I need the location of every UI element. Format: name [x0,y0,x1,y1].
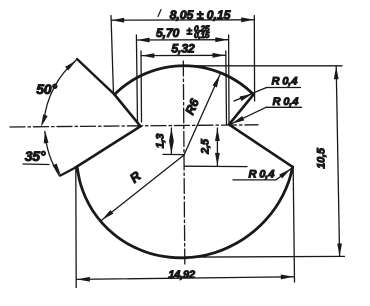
dim 14.92 line [77,277,294,280]
dim 10.5 bottom extension line (tangent at bottom of R arc) [177,255,345,258]
dim 8.05 right arrow [241,17,254,22]
dim 2.5 bottom arrow [215,153,220,166]
dim 2.5 line [216,128,218,166]
dim 5.32 left extension line [140,51,143,122]
svg-text:1,3: 1,3 [155,134,167,149]
svg-text:5,32: 5,32 [171,42,194,56]
fillet R0.4 top shoulder [267,87,301,89]
dim 5.32 right arrow [213,53,226,58]
radius leader R6 [184,75,220,156]
left notch upper edge 50deg [115,95,141,127]
angle 35 lower arrow [52,163,63,177]
svg-text:10,5: 10,5 [316,147,328,169]
angle arc 50deg [44,60,76,121]
angle 50 lower arrow [39,114,48,128]
left notch lower edge extension [61,168,76,176]
dim 5.70 left extension line [136,35,137,122]
center tick right (2.5 reference) [185,165,248,167]
fillet R0.4 bottom arrow [279,167,292,179]
vertical centerline [183,61,185,265]
stray tick before 8.05 [158,10,161,17]
angle 35 underline [23,163,49,166]
dim 5.32 left arrow [141,53,154,58]
angle arc 35deg [45,132,60,177]
dim 1.3 bottom arrow [169,141,174,154]
dim 5.70 line [137,39,229,41]
dim 2.5 top arrow [215,128,220,141]
svg-text:R 0,4: R 0,4 [272,76,299,88]
dim 14.92 left arrow [77,277,90,282]
svg-text:8,05 ± 0,15: 8,05 ± 0,15 [170,8,232,22]
right notch upper edge [229,95,254,125]
dim 1.3 top arrow [169,128,174,141]
fillet R0.4 middle arrow [230,116,244,126]
top lobe arc R6 [115,66,254,95]
fillet R0.4 middle shoulder [266,106,302,108]
fillet R0.4 middle leader [232,107,267,124]
dim 10.5 top extension line (tangent at top of R6 arc) [183,65,342,67]
svg-text:R 0,4: R 0,4 [249,169,276,181]
dim 8.05 right extension line [253,16,255,102]
svg-text:50°: 50° [36,81,57,97]
dim 10.5 bottom arrow [337,244,342,257]
svg-text:±: ± [187,27,193,38]
angle 50 upper arrow [65,58,78,70]
center tick left (1.3 reference) [163,153,185,155]
dim 1.3 line [170,128,172,154]
dim 8.05 line [111,19,254,21]
svg-text:5,70: 5,70 [156,26,179,40]
fillet R0.4 top arrow [240,92,254,101]
angle 35 upper arrow [43,130,49,143]
dim 10.5 line [336,66,339,256]
svg-text:2,5: 2,5 [200,138,212,155]
right notch lower edge [229,125,293,167]
dim 5.70 right extension line [228,35,230,123]
dim 14.92 right arrow [281,274,294,279]
left notch lower edge 35deg [76,126,141,167]
dim 10.5 top arrow [334,66,339,79]
fillet R0.4 bottom leader [276,169,291,180]
dim 14.92 right extension line [293,169,294,282]
dim 5.32 line [141,54,225,56]
fillet R0.4 bottom shoulder [233,179,276,181]
radius R arrow [100,210,113,222]
svg-text:R 0,4: R 0,4 [273,96,300,108]
svg-text:35°: 35° [25,148,46,164]
dim 5.32 right extension line [225,51,228,124]
svg-text:14,92: 14,92 [168,269,196,281]
radius R6 arrow [213,74,223,88]
dim 14.92 left extension line [75,169,77,288]
dim 8.05 left extension line [111,16,114,95]
horizontal centerline [10,125,258,127]
left notch upper edge extension [77,59,115,95]
bottom lobe arc R [76,167,293,258]
dim 8.05 left arrow [111,18,124,23]
svg-text:0,15: 0,15 [194,30,210,40]
fillet R0.4 top leader [234,88,267,102]
dim 5.70 right arrow [215,37,228,42]
radius leader R [102,155,184,220]
dim 5.70 left arrow [137,38,150,43]
